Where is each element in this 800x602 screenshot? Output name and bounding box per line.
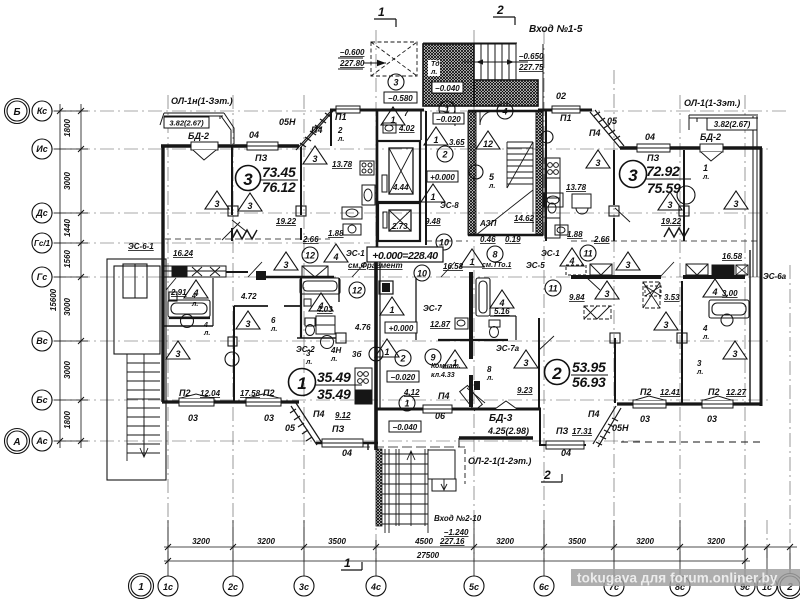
- window БД-3 door (triangle): [495, 401, 517, 409]
- corridor wall right thick: [683, 275, 745, 279]
- svg-text:12.04: 12.04: [200, 389, 221, 398]
- svg-text:4: 4: [191, 293, 196, 300]
- porch slab edge bottom center: [332, 446, 465, 448]
- svg-text:3: 3: [732, 349, 737, 359]
- outer wall bottom of left bay: [316, 442, 378, 445]
- svg-text:35.49: 35.49: [317, 369, 351, 385]
- svg-text:53.95: 53.95: [572, 359, 606, 375]
- left balcony ОЛ-1н outline: [160, 113, 234, 144]
- wardrobe X dashed bottom center: [645, 286, 661, 296]
- kitchen column right apt3: [545, 158, 560, 238]
- svg-text:Гс/1: Гс/1: [34, 239, 51, 248]
- svg-text:06: 06: [435, 411, 446, 421]
- svg-text:2с: 2с: [227, 582, 238, 592]
- svg-text:03: 03: [264, 413, 274, 423]
- svg-text:2.66: 2.66: [302, 235, 319, 244]
- horizontal axis line Бс: [52, 399, 770, 401]
- svg-text:1: 1: [297, 374, 306, 393]
- svg-text:4.72: 4.72: [240, 292, 257, 301]
- svg-text:4: 4: [711, 287, 717, 297]
- svg-text:1440: 1440: [63, 219, 72, 237]
- left dim ticks: [57, 108, 84, 444]
- porch wall bottom center-right: [540, 444, 586, 446]
- boxed elevation labels: [384, 92, 417, 103]
- svg-text:1: 1: [404, 399, 409, 409]
- porch ОЛ-2-1 left edge: [458, 438, 460, 447]
- left apartment room east wall x301: [300, 147, 302, 215]
- svg-text:5.16: 5.16: [494, 307, 510, 316]
- axis circle 7с: [604, 576, 624, 596]
- main stair east wall hatched: [536, 112, 543, 235]
- svg-text:227.80: 227.80: [339, 59, 365, 68]
- interior wall right wing x684 upper: [683, 150, 685, 241]
- svg-text:76.12: 76.12: [262, 179, 296, 195]
- horizontal axis line Дс: [52, 212, 770, 214]
- entrance1 canopy dashed X box: [371, 42, 417, 76]
- lobby/corridor wall x426: [425, 111, 427, 245]
- svg-text:1с: 1с: [163, 582, 173, 592]
- axis circle Ис: [32, 139, 52, 159]
- svg-text:ЭС-5: ЭС-5: [526, 261, 545, 270]
- svg-text:Кс: Кс: [37, 106, 47, 116]
- outer wall bottom right wing: [617, 402, 762, 405]
- bottom entrance stair center arrow: [407, 451, 415, 526]
- partition x339 lower (bath east wall): [338, 278, 340, 302]
- svg-text:73.45: 73.45: [262, 164, 296, 180]
- kitchen counter left apt3: [342, 161, 375, 235]
- svg-text:3.00: 3.00: [722, 289, 738, 298]
- svg-text:2: 2: [399, 354, 405, 364]
- svg-text:13.78: 13.78: [332, 160, 353, 169]
- entrance1 hatched masonry block left: [0, 0, 1, 1]
- svg-text:19.22: 19.22: [661, 217, 682, 226]
- walls group: [160, 110, 762, 484]
- texts group: [128, 24, 787, 546]
- svg-text:3: 3: [214, 199, 219, 209]
- big room circle 3 left: [236, 164, 299, 195]
- svg-text:4.02: 4.02: [398, 124, 415, 133]
- svg-text:1.88: 1.88: [567, 230, 583, 239]
- svg-text:П4: П4: [438, 391, 449, 401]
- svg-text:4Н: 4Н: [330, 346, 341, 355]
- svg-text:П4: П4: [589, 128, 600, 138]
- dashed basement outline right wing: [621, 441, 762, 443]
- svg-text:04: 04: [561, 448, 571, 458]
- horizontal axis line Ас: [52, 440, 640, 442]
- svg-text:13.78: 13.78: [566, 183, 587, 192]
- svg-text:БД-2: БД-2: [188, 131, 209, 141]
- svg-text:ОЛ-1(1-Зэт.): ОЛ-1(1-Зэт.): [684, 98, 740, 108]
- svg-text:12: 12: [305, 251, 315, 261]
- vertical axis line 7с: [613, 70, 615, 560]
- svg-text:3: 3: [306, 349, 311, 358]
- svg-text:4.12: 4.12: [403, 388, 420, 397]
- svg-text:Дс: Дс: [35, 208, 48, 218]
- svg-text:3: 3: [628, 166, 638, 185]
- svg-text:27500: 27500: [416, 551, 440, 560]
- svg-text:1: 1: [433, 135, 438, 145]
- svg-text:П1: П1: [560, 113, 571, 123]
- main stair treads: [507, 142, 533, 232]
- svg-text:9: 9: [430, 353, 435, 363]
- svg-text:–0.600: –0.600: [340, 48, 365, 57]
- svg-text:л.: л.: [702, 334, 709, 341]
- outer wall bottom left wing: [162, 400, 299, 403]
- svg-text:+0.000: +0.000: [389, 324, 414, 333]
- svg-text:ПЗ: ПЗ: [647, 153, 659, 163]
- svg-text:кл.4.33: кл.4.33: [431, 372, 455, 379]
- svg-text:3: 3: [283, 260, 288, 270]
- svg-text:17.31: 17.31: [572, 427, 593, 436]
- svg-text:3.65: 3.65: [449, 138, 465, 147]
- bathtub center: [300, 278, 340, 294]
- svg-text:1: 1: [390, 115, 395, 125]
- axis circle 6с: [534, 576, 554, 596]
- white label backing Тд: [428, 60, 440, 76]
- svg-text:4.44: 4.44: [392, 183, 409, 192]
- axis circle 2 (double): [780, 576, 800, 596]
- big room circle 1 bottom: [289, 369, 363, 403]
- bay diagonal top-left-center: [296, 111, 333, 150]
- horizontal axis line Кс: [52, 110, 790, 112]
- right apt kitchen fixtures (13.78 room): [544, 193, 591, 235]
- svg-text:7: 7: [404, 109, 409, 118]
- bottom dimension lines: [164, 520, 797, 576]
- vertical axis line 1с: [167, 95, 169, 560]
- svg-text:3: 3: [663, 320, 668, 330]
- outer wall top center-left: [330, 109, 424, 112]
- svg-text:–0.650: –0.650: [519, 52, 544, 61]
- svg-text:–0.040: –0.040: [393, 423, 418, 432]
- svg-text:ЭС-1: ЭС-1: [541, 249, 560, 258]
- partition x301 lower (bath west wall): [300, 278, 302, 338]
- balcony inner rail right: [752, 116, 754, 277]
- svg-text:03: 03: [188, 413, 198, 423]
- svg-text:0.46: 0.46: [480, 235, 496, 244]
- svg-text:tokugava для forum.onliner.by: tokugava для forum.onliner.by: [577, 571, 778, 586]
- apartment1 east wall x378 visible below corridor: [379, 252, 381, 410]
- svg-text:Ис: Ис: [36, 144, 47, 154]
- svg-text:16.58: 16.58: [443, 262, 464, 271]
- svg-text:Тд: Тд: [431, 60, 440, 68]
- svg-text:Вход №1-5: Вход №1-5: [529, 24, 583, 35]
- svg-text:–0.040: –0.040: [435, 84, 460, 93]
- main stair lower flight diagonal: [476, 190, 533, 235]
- interior wall left wing vertical lower: [233, 306, 235, 402]
- svg-text:4: 4: [568, 256, 574, 266]
- vertical axis line 3с: [303, 95, 305, 560]
- mid window X left of corridor-right: [566, 264, 612, 275]
- wall y340 under wc row: [438, 339, 508, 341]
- svg-text:4.03: 4.03: [316, 305, 333, 314]
- svg-text:+0.000: +0.000: [430, 173, 455, 182]
- svg-text:–0.020: –0.020: [436, 115, 461, 124]
- outer wall top center-right: [538, 109, 592, 112]
- window 04 bottom-left bay: [322, 439, 363, 447]
- lobby partition x416: [415, 278, 417, 340]
- axis circle Б (double): [7, 101, 27, 121]
- window 03 bottom right 2: [702, 396, 733, 408]
- vertical axis line 6с: [543, 30, 545, 560]
- svg-text:3с: 3с: [299, 582, 309, 592]
- mid wall stub left: [226, 271, 248, 273]
- porch ОЛ-2-1 slab edge (thick): [459, 436, 533, 439]
- svg-text:2.91: 2.91: [170, 288, 187, 297]
- axis circle Ас: [32, 431, 52, 451]
- svg-text:П2: П2: [263, 388, 274, 398]
- vertical axis line 4с: [375, 30, 377, 560]
- svg-text:П1: П1: [335, 112, 346, 122]
- svg-text:см.ТТо.1: см.ТТо.1: [482, 262, 512, 269]
- svg-text:6с: 6с: [539, 582, 549, 592]
- svg-text:11: 11: [548, 284, 557, 294]
- window БД-2 door left (with triangle): [191, 142, 218, 160]
- П4 door diagonal bottom center (small bay): [460, 385, 483, 410]
- svg-text:8: 8: [492, 250, 497, 260]
- svg-text:ПЗ: ПЗ: [556, 426, 568, 436]
- svg-text:16.58: 16.58: [722, 252, 743, 261]
- svg-text:ОЛ-1н(1-Зэт.): ОЛ-1н(1-Зэт.): [171, 96, 233, 106]
- axis circle 1с: [158, 576, 178, 596]
- svg-text:3000: 3000: [63, 172, 72, 190]
- svg-text:05: 05: [285, 423, 296, 433]
- wc apt2 with cistern: [489, 320, 500, 338]
- svg-text:Комнат.: Комнат.: [431, 363, 461, 370]
- bottom dim ticks: [165, 544, 793, 564]
- svg-text:ЭС-1: ЭС-1: [346, 249, 365, 258]
- svg-text:1: 1: [138, 582, 144, 593]
- svg-text:4: 4: [332, 252, 338, 262]
- svg-text:3200: 3200: [496, 537, 514, 546]
- svg-text:л.: л.: [430, 69, 437, 76]
- radiator zigzag left: [232, 230, 257, 239]
- kitchen apt1 bottom: [355, 368, 372, 404]
- svg-text:11: 11: [583, 249, 592, 259]
- svg-text:3: 3: [667, 200, 672, 210]
- left tower stair arrow: [140, 420, 148, 457]
- svg-text:3000: 3000: [63, 361, 72, 379]
- svg-text:3б: 3б: [352, 350, 362, 359]
- window БД-2 door right (with triangle): [700, 144, 723, 161]
- main stair west wall hatched: [468, 112, 476, 235]
- outer wall left: [161, 145, 164, 402]
- svg-text:3200: 3200: [192, 537, 210, 546]
- svg-text:9.84: 9.84: [569, 293, 585, 302]
- position triangles: [166, 107, 748, 368]
- svg-text:72.92: 72.92: [646, 163, 680, 179]
- svg-text:3200: 3200: [257, 537, 275, 546]
- bay diagonal bottom-right-center: [593, 406, 621, 447]
- svg-text:05: 05: [607, 116, 618, 126]
- window 04 left: [247, 142, 278, 150]
- svg-text:3: 3: [245, 319, 250, 329]
- svg-text:ЭС-7а: ЭС-7а: [496, 344, 520, 353]
- interior wall lower right x539: [538, 318, 540, 408]
- svg-text:л.: л.: [305, 359, 312, 366]
- svg-text:1800: 1800: [63, 119, 72, 137]
- svg-text:9.23: 9.23: [517, 386, 533, 395]
- window 04 porch bottom: [546, 441, 584, 449]
- svg-text:3: 3: [312, 154, 317, 164]
- axis circle Бс: [32, 390, 52, 410]
- axis circle Гс/1: [32, 233, 52, 253]
- window 04 right wing: [637, 144, 670, 152]
- interior wall left wing vertical upper: [231, 147, 233, 215]
- svg-text:П4: П4: [588, 409, 599, 419]
- column square markers: [228, 206, 689, 346]
- svg-text:4: 4: [702, 324, 708, 333]
- svg-text:ОЛ-2-1(1-2эт.): ОЛ-2-1(1-2эт.): [468, 456, 531, 466]
- svg-text:3: 3: [604, 289, 609, 299]
- svg-text:9.48: 9.48: [425, 217, 441, 226]
- window 03 bottom right 1: [633, 396, 666, 408]
- bay diagonal bottom-left-center: [290, 403, 322, 445]
- outer wall right: [760, 148, 763, 406]
- axis circle 9с: [735, 576, 755, 596]
- entry door arcs top wall: [440, 111, 494, 126]
- left tower outer box: [107, 259, 166, 480]
- lift shaft lower: [378, 203, 420, 241]
- svg-text:БД-2: БД-2: [700, 132, 721, 142]
- svg-text:19.22: 19.22: [276, 217, 297, 226]
- axis circle Кс: [32, 101, 52, 121]
- svg-text:П2: П2: [179, 388, 190, 398]
- bay diagonal top-right-center: [590, 110, 624, 149]
- bottom entrance landing box: [428, 450, 455, 479]
- svg-text:10: 10: [417, 269, 427, 279]
- svg-text:2.73: 2.73: [391, 222, 408, 231]
- top right entrance porch lines: [423, 43, 543, 110]
- svg-text:02: 02: [556, 91, 566, 101]
- bathtub vertical apt2: [476, 278, 490, 316]
- svg-text:3.53: 3.53: [664, 293, 680, 302]
- svg-text:8: 8: [487, 365, 492, 374]
- partition bath left wing vertical: [212, 278, 214, 326]
- entrance1 hatched masonry strip right: [474, 80, 538, 106]
- svg-text:75.59: 75.59: [647, 180, 681, 196]
- svg-text:2: 2: [543, 468, 551, 482]
- svg-text:2: 2: [496, 3, 504, 17]
- svg-text:3: 3: [247, 201, 252, 211]
- interior wall lower right x615: [614, 338, 616, 403]
- svg-text:П4: П4: [311, 125, 322, 135]
- mid window ВО dark right: [686, 264, 748, 275]
- svg-text:03: 03: [640, 414, 650, 424]
- svg-text:3200: 3200: [636, 537, 654, 546]
- wall east of lift shafts: [420, 111, 422, 140]
- svg-text:3: 3: [697, 359, 702, 368]
- svg-text:БД-3: БД-3: [489, 413, 513, 424]
- svg-text:1: 1: [703, 163, 708, 173]
- svg-text:3500: 3500: [568, 537, 586, 546]
- fixtures group: [166, 106, 749, 449]
- svg-text:14.62: 14.62: [514, 214, 535, 223]
- svg-text:17.58: 17.58: [240, 389, 261, 398]
- svg-text:4: 4: [203, 322, 208, 329]
- bottom entrance lower box with arrow: [432, 479, 456, 491]
- vertical axis line 8с: [679, 95, 681, 560]
- svg-text:л.: л.: [270, 326, 277, 333]
- svg-text:3000: 3000: [63, 298, 72, 316]
- svg-text:227.75: 227.75: [518, 63, 544, 72]
- svg-text:л.: л.: [191, 301, 198, 308]
- apartment wall east of stair x546: [545, 111, 547, 241]
- porch dashed outline right: [464, 449, 466, 484]
- section mark 2 bottom: [541, 468, 562, 482]
- svg-text:227.16: 227.16: [439, 537, 465, 546]
- axis circle 1с right: [757, 576, 777, 596]
- svg-text:ПЗ: ПЗ: [332, 424, 344, 434]
- svg-text:Б: Б: [13, 107, 20, 118]
- svg-text:3500: 3500: [328, 537, 346, 546]
- svg-text:А: А: [12, 437, 20, 448]
- svg-text:л.: л.: [702, 174, 709, 181]
- section mark 2 top: [493, 3, 515, 25]
- svg-text:03: 03: [707, 414, 717, 424]
- svg-text:ЭС-6-1: ЭС-6-1: [128, 242, 154, 251]
- main stair top wall: [468, 110, 543, 112]
- svg-text:–0.020: –0.020: [391, 373, 416, 382]
- big room circle 2 bottom right: [545, 359, 609, 390]
- wc left wing lower: [304, 299, 335, 349]
- numbered circles: [225, 74, 695, 411]
- svg-text:1560: 1560: [63, 250, 72, 268]
- horizontal axis line Гс/1: [52, 242, 370, 244]
- svg-text:15600: 15600: [49, 288, 58, 311]
- svg-text:1: 1: [469, 257, 474, 267]
- axis circle 2с: [223, 576, 243, 596]
- svg-text:9.12: 9.12: [335, 411, 351, 420]
- svg-text:4с: 4с: [370, 582, 381, 592]
- big room circle 3 right: [620, 161, 692, 197]
- window П1 top center-left: [336, 106, 360, 113]
- svg-text:л.: л.: [203, 330, 210, 337]
- svg-text:1: 1: [430, 192, 435, 202]
- symbols group: [166, 74, 748, 411]
- svg-text:Гс: Гс: [37, 272, 48, 282]
- horizontal axis line Вс: [52, 340, 770, 342]
- left tower top small box: [123, 264, 147, 298]
- svg-text:л.: л.: [696, 369, 703, 376]
- svg-text:Вход №2-10: Вход №2-10: [434, 514, 482, 523]
- bottom axis circles row: [129, 574, 800, 599]
- window 03 bottom left 1: [179, 394, 214, 406]
- left apartment bay side wall x331: [330, 111, 332, 146]
- svg-text:П4: П4: [313, 409, 324, 419]
- svg-text:04: 04: [645, 132, 655, 142]
- central thick wall x471: [469, 272, 473, 359]
- svg-text:12.87: 12.87: [430, 320, 451, 329]
- left dim texts (rotated): [49, 119, 72, 429]
- vertical axis line 5с: [473, 30, 475, 560]
- partition y306 left hall top: [234, 305, 268, 307]
- svg-text:4: 4: [501, 107, 507, 117]
- svg-text:12: 12: [352, 286, 362, 296]
- window 02 top center: [552, 106, 580, 113]
- dashed apartment split left wing: [165, 238, 330, 240]
- svg-text:12.27: 12.27: [726, 388, 747, 397]
- dashed corridor right wing: [571, 240, 758, 242]
- wardrobe X dashed lower right 2: [584, 306, 611, 319]
- svg-text:04: 04: [342, 448, 352, 458]
- svg-text:3.82(2.67): 3.82(2.67): [169, 119, 204, 128]
- interior wall bath room bottom left wing: [164, 325, 213, 327]
- svg-text:ЭС-8: ЭС-8: [440, 201, 459, 210]
- svg-text:–0.580: –0.580: [388, 94, 413, 103]
- left tower stair treads: [127, 354, 160, 461]
- vertical axis line 1с right: [766, 520, 768, 560]
- radiator zigzag right: [664, 228, 689, 237]
